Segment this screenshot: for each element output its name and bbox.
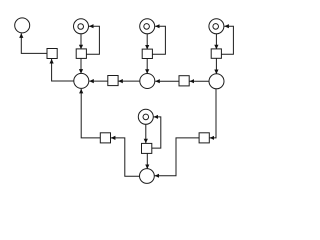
place P2 xyxy=(74,19,89,34)
wire T8 to P5 xyxy=(81,89,100,138)
transition T4 xyxy=(211,49,221,58)
transition T2 xyxy=(76,49,86,59)
wire T2 to P2 feedback xyxy=(86,26,99,54)
transition T3 xyxy=(142,49,152,58)
transition T5 xyxy=(142,143,152,153)
transition T6 xyxy=(108,76,118,86)
wire P9 to T8 xyxy=(111,138,140,176)
token in P8 xyxy=(143,114,149,120)
wire P2 to T2 xyxy=(80,34,82,50)
wire P6 to T6 xyxy=(118,80,140,82)
wire T5 to P8 feedback xyxy=(152,117,161,148)
wire P8 to T5 xyxy=(145,124,147,143)
wire T3 to P6 xyxy=(146,58,148,73)
wire P4 to T4 xyxy=(215,34,217,50)
wire P7 to T7 xyxy=(190,80,210,82)
wire P3 to T3 xyxy=(146,34,148,50)
place P6 xyxy=(140,74,155,89)
wire T7 to P6 xyxy=(155,80,179,82)
wire T4 to P7 xyxy=(215,58,217,74)
place P8 xyxy=(138,109,153,124)
wire T5 to P9 xyxy=(146,153,148,169)
place P3 xyxy=(140,19,155,34)
transition T7 xyxy=(179,76,189,86)
place P7 xyxy=(209,74,224,89)
wire T9 to P9 xyxy=(155,138,200,176)
wire P7 to T9 xyxy=(210,89,216,138)
place P4 xyxy=(209,19,224,34)
transition T1 xyxy=(47,49,57,59)
wire T2 to P5 xyxy=(80,58,82,73)
place P9 xyxy=(140,169,155,184)
wire T6 to P5 xyxy=(89,80,108,82)
token in P3 xyxy=(144,24,150,30)
token in P4 xyxy=(213,24,219,30)
wire T3 to P3 feedback xyxy=(152,26,165,54)
wire T1 to P1 xyxy=(21,33,47,53)
transition T8 xyxy=(100,133,110,143)
place P5 xyxy=(74,73,89,88)
wire P5 to T1 xyxy=(52,59,74,81)
token in P2 xyxy=(78,24,84,30)
transition T9 xyxy=(199,133,209,143)
wire T4 to P4 feedback xyxy=(221,26,233,54)
place P1 xyxy=(15,18,30,33)
